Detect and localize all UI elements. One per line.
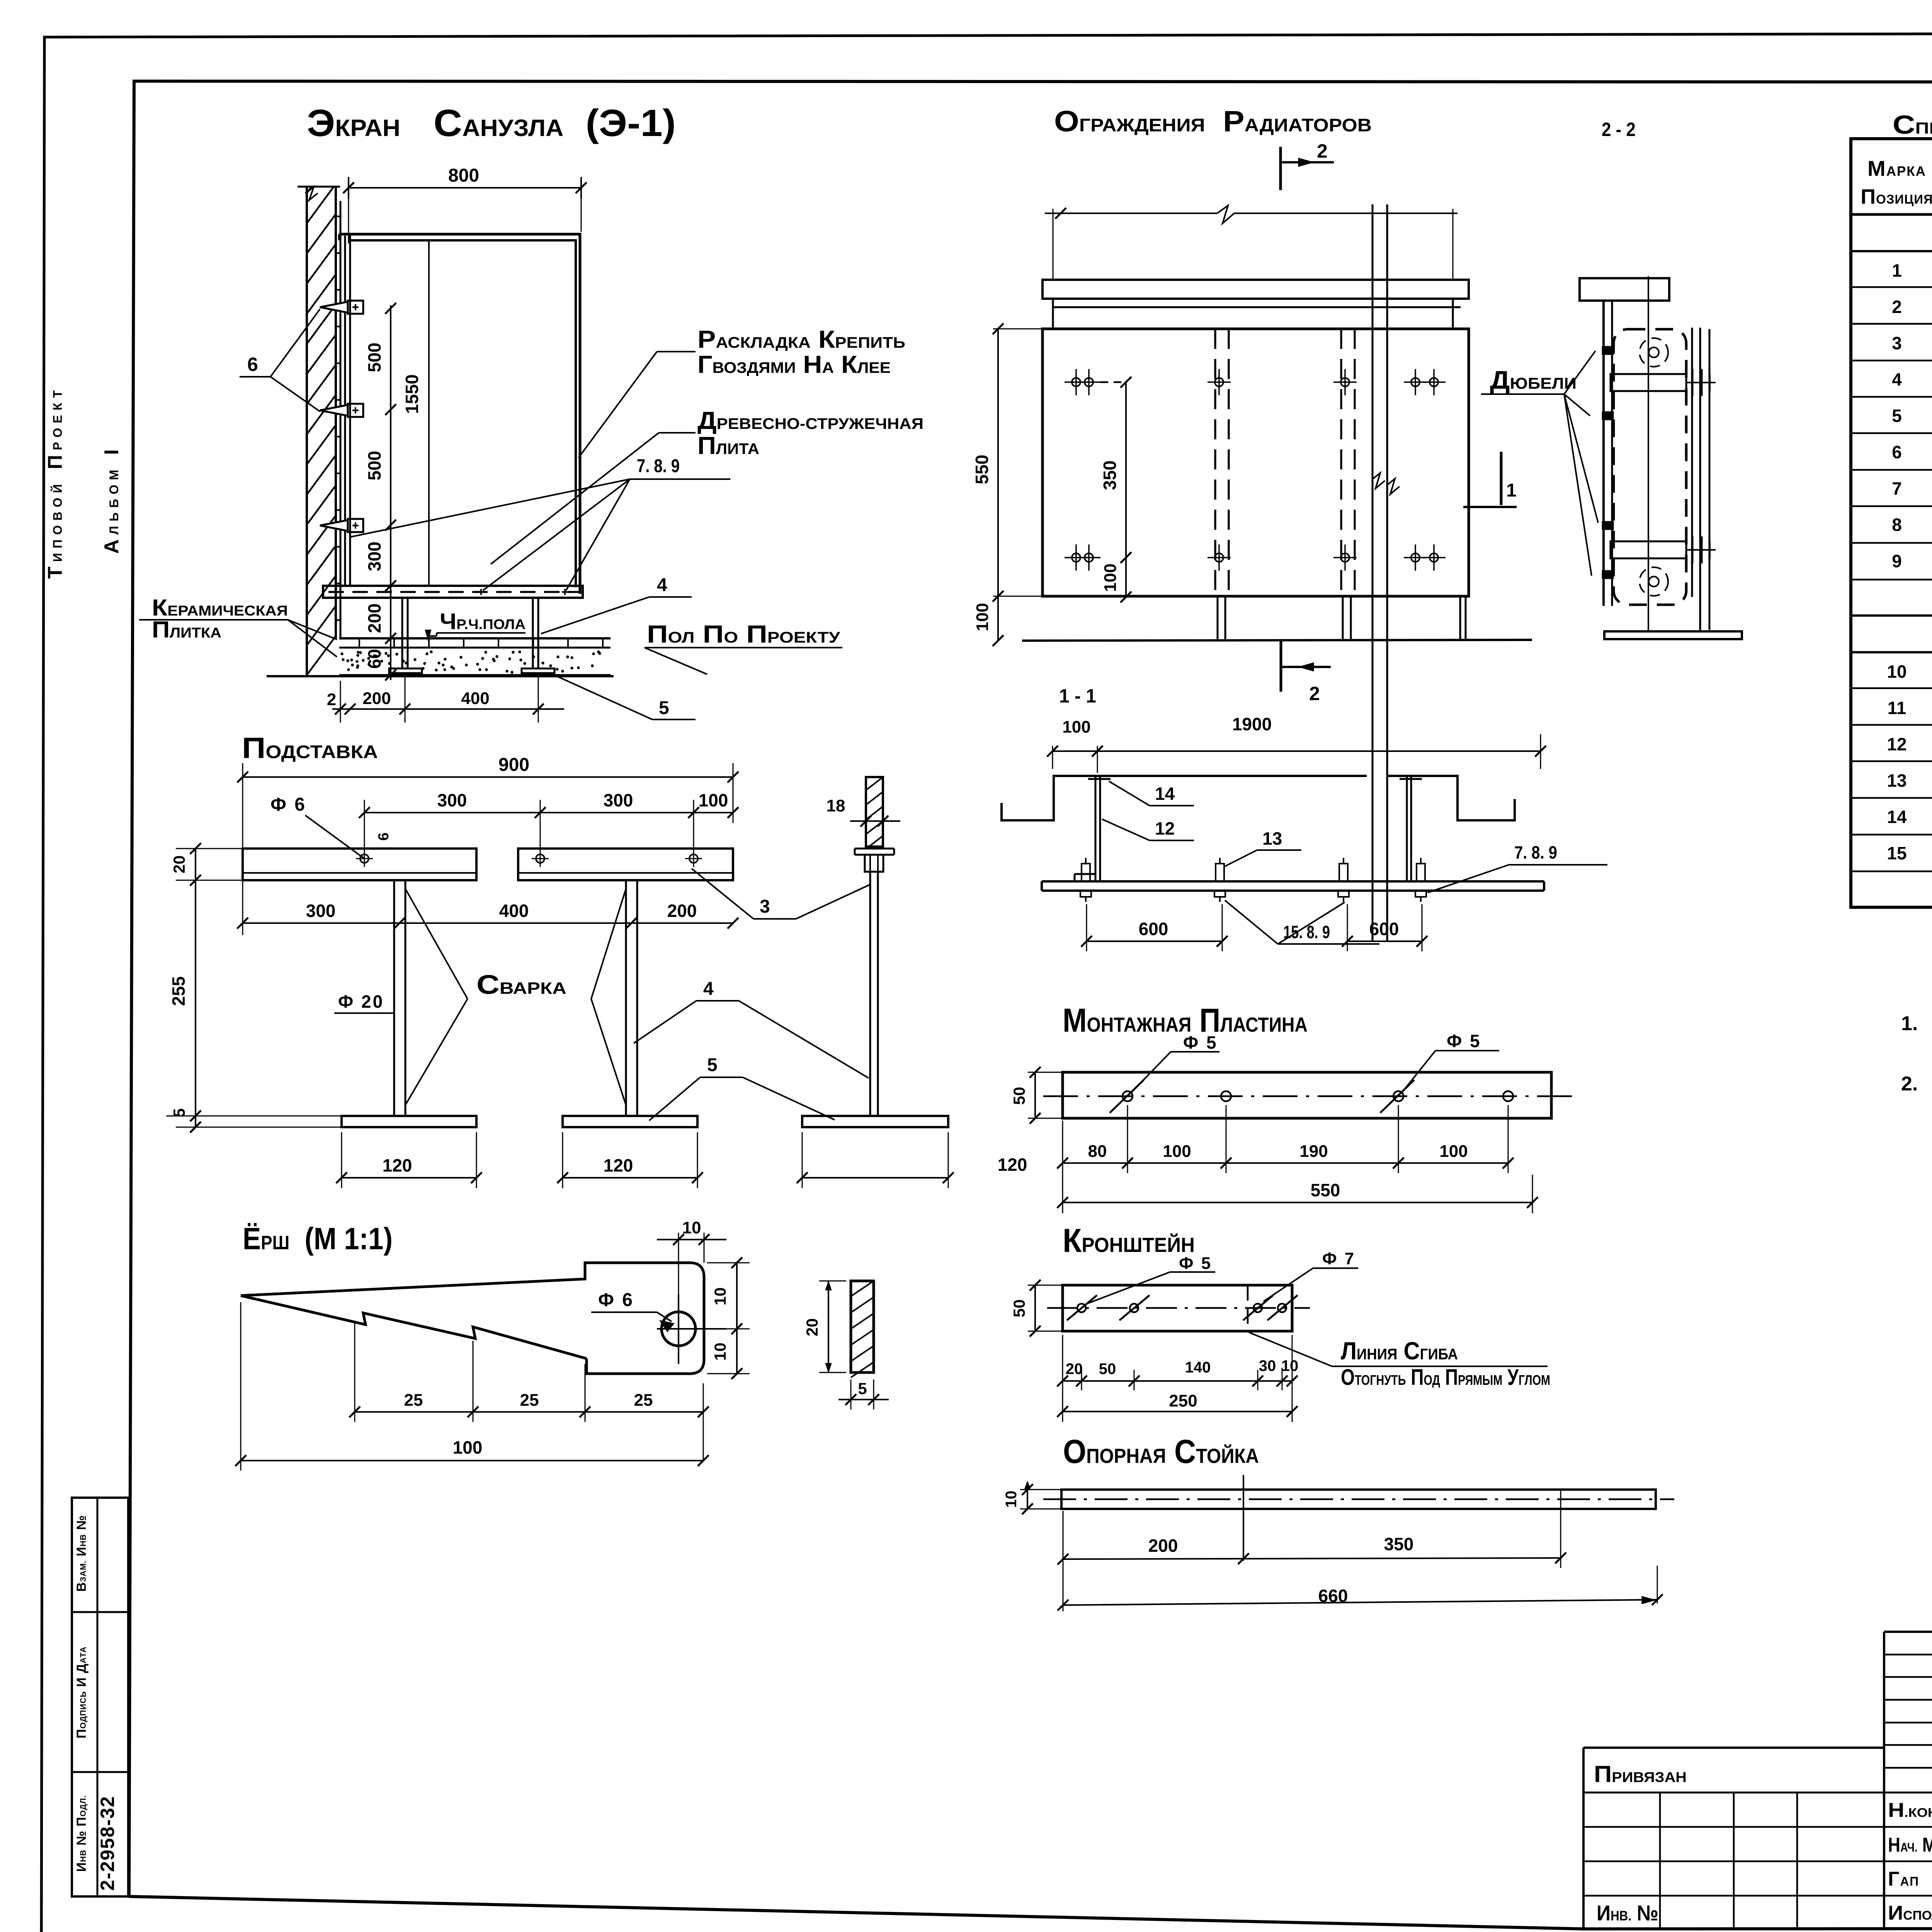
svg-text:2: 2: [327, 690, 336, 709]
svg-text:10: 10: [711, 1287, 729, 1306]
svg-text:550: 550: [972, 455, 992, 485]
svg-text:НАЧ. МАСТ.: НАЧ. МАСТ.: [1888, 1834, 1932, 1856]
svg-text:500: 500: [364, 343, 384, 372]
svg-text:5: 5: [707, 1055, 718, 1075]
svg-text:6: 6: [247, 354, 258, 375]
svg-text:10: 10: [682, 1218, 701, 1237]
panel plan band: [1042, 880, 1544, 883]
inventory strip box: [72, 1498, 128, 1896]
dim 550/100 left: [997, 329, 999, 641]
svg-text:1: 1: [1892, 260, 1902, 281]
svg-text:100: 100: [1439, 1142, 1468, 1161]
svg-text:1550: 1550: [402, 374, 422, 414]
svg-text:10: 10: [1003, 1491, 1020, 1508]
svg-text:ПЛИТА: ПЛИТА: [697, 432, 759, 459]
svg-text:350: 350: [1384, 1534, 1414, 1554]
svg-text:100: 100: [453, 1437, 483, 1458]
svg-text:ИНВ № ПОДЛ.: ИНВ № ПОДЛ.: [74, 1795, 89, 1872]
svg-text:4: 4: [1892, 369, 1902, 389]
dim 350/100 vertical: [1125, 382, 1127, 597]
svg-text:Н.КОНТР.: Н.КОНТР.: [1888, 1799, 1932, 1821]
svg-text:25: 25: [404, 1391, 423, 1410]
svg-text:СВАРКА: СВАРКА: [476, 969, 566, 1000]
svg-text:ИСПОЛН.: ИСПОЛН.: [1888, 1902, 1932, 1924]
svg-text:ЁРШ (М 1:1): ЁРШ (М 1:1): [243, 1221, 393, 1256]
fastener ерш middle: [320, 405, 348, 416]
plan bolts: [1082, 864, 1090, 881]
2-2 screen board: [1602, 301, 1605, 606]
table outer box: [1851, 139, 1932, 907]
svg-text:900: 900: [498, 755, 529, 775]
ерш side section hatched: [851, 1281, 874, 1372]
plate holes: [1122, 1091, 1133, 1101]
bracket left plan: [1095, 776, 1097, 881]
svg-text:ПЛИТКА: ПЛИТКА: [152, 617, 221, 643]
dim 20 side: [828, 1281, 829, 1372]
left plank: [243, 849, 476, 880]
svg-text:200: 200: [362, 689, 391, 708]
2-2 radiator top circles: [1639, 338, 1668, 367]
svg-text:ДЮБЕЛИ: ДЮБЕЛИ: [1490, 366, 1577, 394]
svg-text:5: 5: [659, 698, 669, 718]
concrete stipple layer: [339, 674, 611, 676]
dim 50 left: [1034, 1285, 1036, 1331]
svg-text:350: 350: [1100, 461, 1120, 490]
svg-text:300: 300: [364, 542, 384, 571]
svg-text:100: 100: [973, 603, 992, 631]
dim 1550: [428, 240, 430, 586]
right plank: [518, 849, 733, 880]
svg-text:120: 120: [604, 1155, 633, 1175]
svg-text:1900: 1900: [1232, 714, 1272, 734]
side view plank section hatched: [866, 777, 883, 847]
svg-text:255: 255: [168, 976, 189, 1006]
svg-text:3: 3: [760, 896, 770, 917]
svg-text:12: 12: [1887, 734, 1906, 754]
dim 550: [1063, 1202, 1532, 1203]
svg-text:КЕРАМИЧЕСКАЯ: КЕРАМИЧЕСКАЯ: [152, 595, 288, 621]
2-2 mounting strips: [1691, 328, 1693, 597]
wall outline plan: [1002, 776, 1367, 820]
dims 20/50/140/30/10: [1063, 1380, 1292, 1382]
svg-text:300: 300: [604, 790, 633, 810]
mid dim 300/400/200: [243, 922, 733, 924]
svg-text:80: 80: [1088, 1142, 1107, 1161]
svg-text:ИНВ. №: ИНВ. №: [1597, 1901, 1658, 1925]
svg-text:4: 4: [703, 979, 714, 999]
bracket right plan: [1406, 776, 1408, 881]
dim 5 side: [838, 1399, 889, 1400]
svg-text:7. 8. 9: 7. 8. 9: [637, 456, 680, 476]
ерш spike outline: [241, 1263, 704, 1374]
2-2 foot plate: [1604, 631, 1742, 639]
tile floor layer: [339, 637, 611, 639]
svg-text:7. 8. 9: 7. 8. 9: [1514, 842, 1557, 862]
side foot dim 120: [802, 1177, 948, 1179]
dim 660: [1063, 1600, 1657, 1605]
2-2 bracket top: [1611, 374, 1686, 391]
svg-text:ЛИНИЯ СГИБА: ЛИНИЯ СГИБА: [1341, 1337, 1458, 1365]
svg-text:Ф 5: Ф 5: [1179, 1254, 1212, 1273]
svg-text:50: 50: [1010, 1299, 1028, 1318]
svg-text:14: 14: [1155, 784, 1175, 804]
svg-text:30: 30: [1259, 1357, 1276, 1374]
svg-text:10: 10: [1281, 1357, 1299, 1374]
svg-text:200: 200: [667, 901, 697, 921]
2-2 view cap: [1580, 278, 1669, 301]
svg-text:800: 800: [448, 165, 479, 186]
bracket holes: [1077, 1304, 1086, 1312]
svg-text:ПОЗИЦИЯ: ПОЗИЦИЯ: [1861, 185, 1932, 208]
feet dims 120: [342, 1177, 476, 1179]
svg-text:140: 140: [1185, 1359, 1211, 1376]
2-2 bracket bottom: [1611, 541, 1686, 558]
svg-text:10: 10: [711, 1343, 729, 1361]
dim chain 500/500/300/200/60 line: [390, 305, 391, 680]
floor line: [1022, 640, 1532, 641]
svg-text:9: 9: [1892, 551, 1902, 571]
svg-text:100: 100: [1101, 563, 1120, 592]
svg-text:ВЗАМ. ИНВ №: ВЗАМ. ИНВ №: [74, 1515, 89, 1592]
svg-text:120: 120: [383, 1155, 412, 1175]
section mark 1 right: [1500, 452, 1503, 505]
svg-text:25: 25: [634, 1391, 653, 1410]
fastener ерш bottom: [320, 520, 348, 531]
2-2 center pipe: [1648, 276, 1649, 633]
svg-text:2.: 2.: [1901, 1073, 1918, 1095]
bar outline: [1061, 1490, 1656, 1509]
shelf (подставка top plank in section): [323, 586, 583, 598]
row split 10/11 (not across расход col): [1851, 687, 1932, 689]
2-2 radiator bottom circles: [1639, 567, 1668, 596]
dims 200/350: [1063, 1558, 1561, 1559]
2-2 dowel plates: [1602, 346, 1614, 355]
svg-text:ЭКРАН САНУЗЛА (Э-1): ЭКРАН САНУЗЛА (Э-1): [307, 102, 676, 144]
svg-text:100: 100: [1163, 1142, 1191, 1161]
svg-text:100: 100: [1062, 718, 1090, 736]
svg-text:Ф 6: Ф 6: [270, 794, 306, 815]
svg-text:600: 600: [1139, 919, 1168, 939]
svg-text:РАСКЛАДКА КРЕПИТЬ: РАСКЛАДКА КРЕПИТЬ: [697, 325, 905, 353]
svg-text:ПРИВЯЗАН: ПРИВЯЗАН: [1594, 1761, 1687, 1787]
svg-text:20: 20: [1066, 1361, 1083, 1378]
bend line dashed: [1247, 1285, 1249, 1331]
svg-text:50: 50: [1099, 1361, 1116, 1378]
left T-leg: [393, 880, 395, 1116]
svg-text:550: 550: [1311, 1180, 1340, 1200]
svg-text:15: 15: [1887, 843, 1906, 863]
svg-text:ДРЕВЕСНО-СТРУЖЕЧНАЯ: ДРЕВЕСНО-СТРУЖЕЧНАЯ: [697, 406, 923, 434]
svg-text:660: 660: [1318, 1586, 1348, 1606]
svg-text:13: 13: [1262, 828, 1282, 849]
panel bolts: [1072, 378, 1080, 386]
section mark 2 bottom: [1280, 641, 1282, 692]
side view bracket: [855, 848, 894, 850]
svg-text:250: 250: [1169, 1391, 1197, 1410]
svg-text:11: 11: [1888, 698, 1906, 718]
svg-text:14: 14: [1887, 807, 1907, 827]
radiator panel front: [1043, 329, 1469, 596]
svg-text:200: 200: [1148, 1536, 1178, 1556]
svg-text:ГАП: ГАП: [1888, 1868, 1919, 1890]
svg-text:ОГРАЖДЕНИЯ РАДИАТОРОВ: ОГРАЖДЕНИЯ РАДИАТОРОВ: [1054, 105, 1372, 138]
svg-text:190: 190: [1299, 1142, 1328, 1161]
svg-text:5: 5: [1892, 406, 1902, 426]
svg-text:МАРКА: МАРКА: [1867, 156, 1926, 180]
leg feet plates: [389, 668, 422, 673]
side view foot: [802, 1116, 948, 1127]
svg-text:13: 13: [1887, 770, 1906, 791]
svg-text:25: 25: [520, 1391, 539, 1410]
svg-text:120: 120: [998, 1155, 1027, 1175]
title block revision grid: [1883, 1632, 1885, 1930]
svg-text:2-2958-32: 2-2958-32: [97, 1796, 118, 1891]
signature rows: [1884, 1826, 1932, 1828]
wall hatched strip: [306, 187, 308, 675]
svg-text:1: 1: [1506, 480, 1517, 501]
right T-leg: [625, 880, 627, 1116]
dim 800: [349, 187, 581, 189]
side view rod: [869, 872, 871, 1116]
svg-text:Ф 7: Ф 7: [1322, 1249, 1355, 1268]
svg-text:ОПОРНАЯ СТОЙКА: ОПОРНАЯ СТОЙКА: [1063, 1433, 1259, 1470]
screen board outline: [339, 234, 580, 594]
dim 250: [1063, 1411, 1292, 1412]
svg-text:Ф 5: Ф 5: [1183, 1032, 1218, 1053]
svg-text:1.: 1.: [1901, 1012, 1918, 1035]
svg-text:100: 100: [699, 790, 728, 810]
svg-text:300: 300: [306, 901, 336, 921]
svg-text:600: 600: [1369, 919, 1399, 939]
svg-text:400: 400: [499, 901, 529, 921]
table row lines: [1851, 213, 1932, 216]
dim 300/300/100 row: [364, 812, 733, 813]
svg-text:500: 500: [364, 451, 384, 481]
2-2 radiator dashed: [1614, 329, 1686, 605]
legs below panel: [1217, 596, 1219, 639]
svg-text:Ф 20: Ф 20: [338, 992, 384, 1012]
svg-text:400: 400: [461, 689, 489, 708]
svg-text:2 - 2: 2 - 2: [1602, 119, 1636, 140]
ерш hole Ф6: [662, 1312, 696, 1346]
plate outline: [1063, 1072, 1551, 1118]
svg-text:6: 6: [376, 832, 392, 840]
svg-text:ПОДПИСЬ И ДАТА: ПОДПИСЬ И ДАТА: [74, 1646, 89, 1738]
svg-text:Ф 5: Ф 5: [1447, 1031, 1481, 1051]
bottom dim 2/200/400: [332, 708, 564, 710]
svg-text:20: 20: [170, 855, 188, 874]
svg-text:ПОДСТАВКА: ПОДСТАВКА: [242, 732, 378, 765]
svg-text:ТИПОВОЙ ПРОЕКТ: ТИПОВОЙ ПРОЕКТ: [44, 386, 66, 579]
plank holes: [360, 854, 369, 863]
ground line: [267, 675, 614, 677]
break verticals: [1372, 204, 1374, 941]
svg-text:ЧР.Ч.ПОЛА: ЧР.Ч.ПОЛА: [440, 609, 526, 634]
cap rail band: [1043, 280, 1469, 299]
dim 50 left: [1034, 1072, 1036, 1118]
svg-text:1 - 1: 1 - 1: [1059, 685, 1096, 707]
svg-text:ОТОГНУТЬ ПОД ПРЯМЫМ УГЛОМ: ОТОГНУТЬ ПОД ПРЯМЫМ УГЛОМ: [1341, 1365, 1550, 1390]
dim 100: [241, 1460, 703, 1461]
svg-text:5: 5: [858, 1379, 867, 1398]
right dims 10/10: [736, 1263, 738, 1375]
dim 600 left: [1087, 940, 1222, 942]
svg-text:10: 10: [1887, 662, 1906, 682]
dim 100/1900 bottom: [1053, 750, 1541, 752]
dim 600 right: [1347, 940, 1422, 942]
svg-text:Ф 6: Ф 6: [598, 1290, 634, 1310]
svg-text:8: 8: [1892, 515, 1902, 535]
fastener ерш top: [320, 302, 348, 313]
top dim line with break: [1045, 213, 1217, 214]
svg-text:5: 5: [170, 1108, 188, 1117]
svg-text:50: 50: [1010, 1087, 1028, 1105]
svg-text:2: 2: [1317, 140, 1328, 162]
bracket plate: [1063, 1285, 1292, 1331]
svg-text:300: 300: [437, 790, 467, 810]
svg-text:12: 12: [1155, 818, 1175, 838]
svg-text:3: 3: [1892, 333, 1902, 353]
section mark 2 top: [1279, 147, 1282, 190]
dim 10 bar left: [1027, 1490, 1028, 1509]
svg-text:СПЕЦИФИКАЦИЯ МАТЕРИАЛОВ НА: СПЕЦИФИКАЦИЯ МАТЕРИАЛОВ НА ИНДИВИДУАЛЬНЫ…: [1893, 110, 1932, 139]
wall tile lining: [340, 201, 342, 638]
svg-text:7: 7: [1892, 478, 1902, 498]
left vertical dims 20/255/5: [195, 849, 196, 1127]
svg-text:4: 4: [657, 575, 667, 595]
dim 10 top: [657, 1239, 726, 1240]
svg-text:6: 6: [1892, 442, 1902, 462]
svg-text:АЛЬБОМ I: АЛЬБОМ I: [100, 445, 123, 554]
svg-text:20: 20: [803, 1318, 821, 1337]
bottom dims 25/25/25: [355, 1411, 703, 1413]
svg-text:200: 200: [364, 604, 384, 633]
dim 900: [243, 776, 733, 778]
svg-text:15. 8. 9: 15. 8. 9: [1283, 922, 1330, 942]
svg-text:18: 18: [827, 796, 845, 815]
title block left part (Привязан): [1582, 1748, 1585, 1930]
svg-text:2: 2: [1892, 297, 1902, 317]
shelf legs: [401, 598, 403, 668]
screen edge strips (раскладка): [344, 236, 346, 586]
dims 80/100/190/100: [1063, 1162, 1508, 1164]
svg-text:ПОЛ ПО ПРОЕКТУ: ПОЛ ПО ПРОЕКТУ: [647, 620, 840, 648]
svg-text:ГВОЗДЯМИ НА КЛЕЕ: ГВОЗДЯМИ НА КЛЕЕ: [697, 350, 891, 378]
svg-text:2: 2: [1309, 683, 1320, 704]
svg-text:КРОНШТЕЙН: КРОНШТЕЙН: [1063, 1222, 1195, 1259]
hidden stiles dashed: [1214, 329, 1216, 596]
